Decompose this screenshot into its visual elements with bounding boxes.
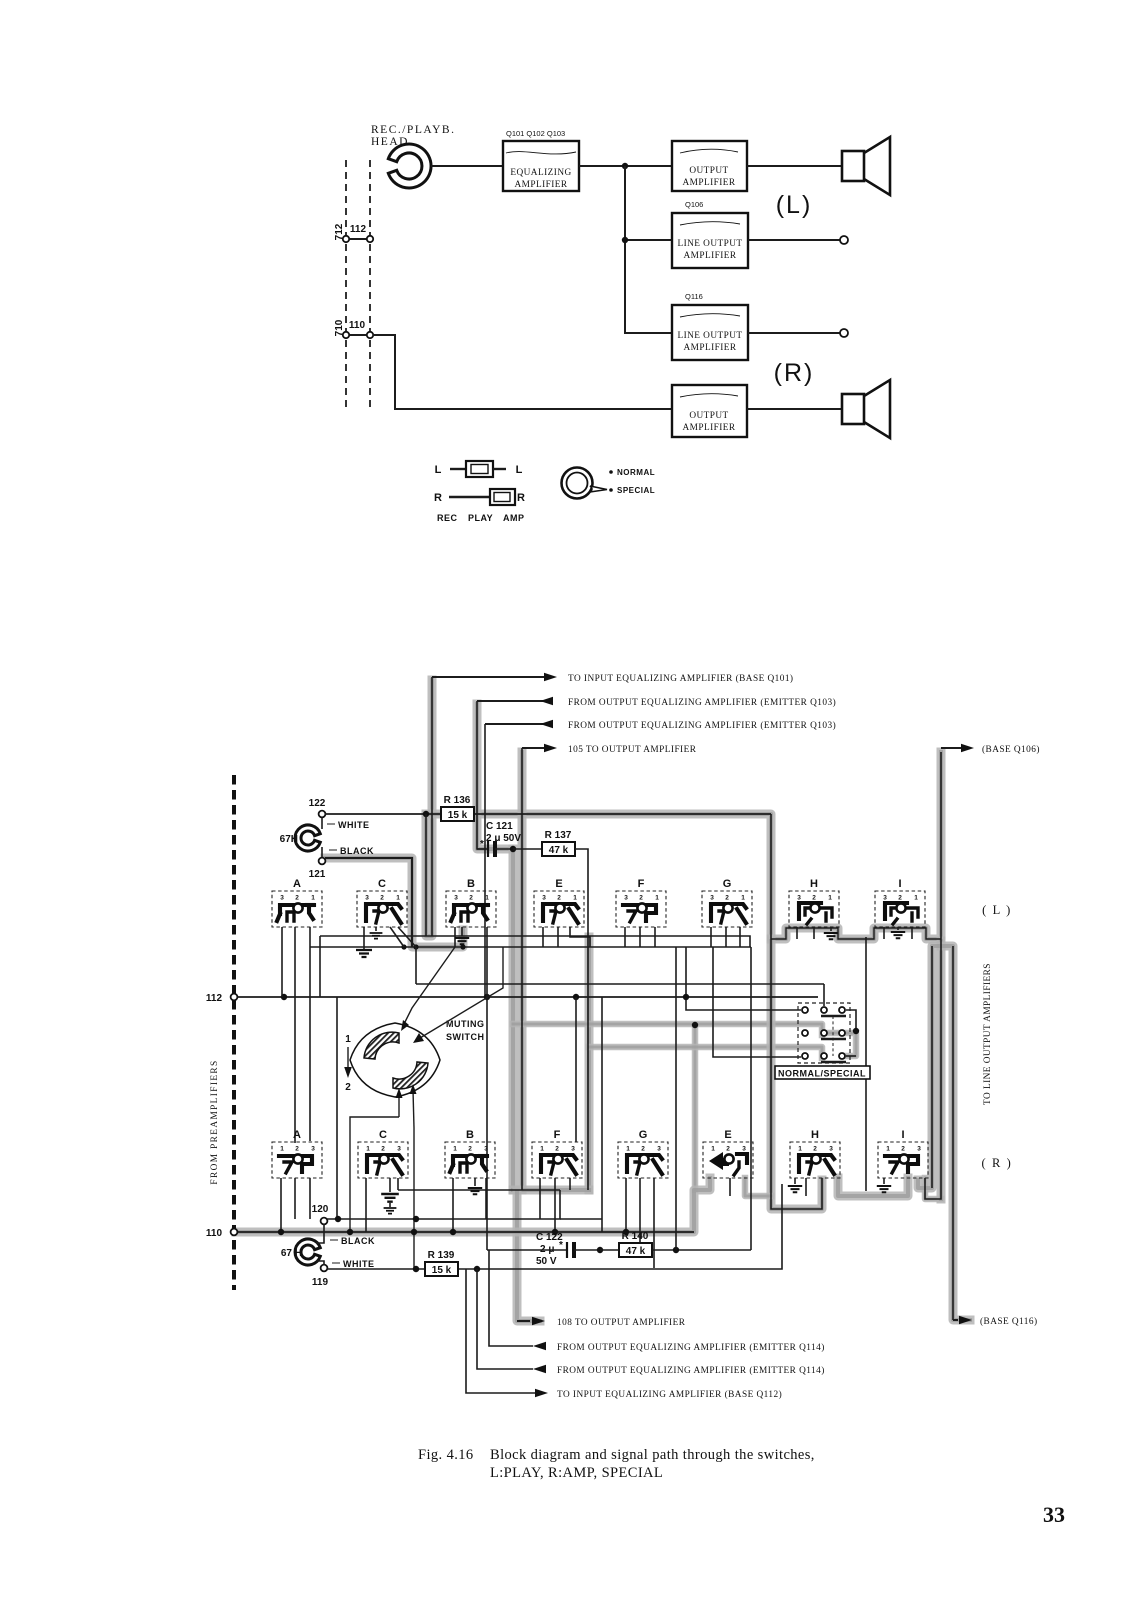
wire head lower white lead (316, 1261, 324, 1265)
node dots R139 line (413, 1266, 480, 1272)
svg-text:47 k: 47 k (626, 1246, 646, 1257)
switch E upper (534, 878, 584, 927)
node C121/R137 junction (510, 846, 516, 852)
node dots 120 bus (335, 1216, 419, 1222)
svg-text:2: 2 (639, 895, 643, 902)
svg-text:AMPLIFIER: AMPLIFIER (682, 178, 735, 188)
switch G upper (702, 878, 752, 927)
label WHITE lower (332, 1259, 375, 1269)
svg-text:2: 2 (295, 1146, 299, 1153)
capacitor C122 (487, 1240, 600, 1258)
legend labels REC PLAY AMP (437, 513, 525, 523)
signal path grey I exit up (925, 1178, 941, 1199)
wire equalizing amp to output amp (579, 165, 672, 167)
wire R136 line (325, 813, 771, 815)
svg-text:L: L (435, 464, 442, 476)
switch I upper (875, 878, 925, 927)
wire switch H lower legs (805, 1178, 807, 1196)
wire switch B upper legs (455, 927, 487, 1250)
terminal 121 (309, 858, 326, 880)
svg-text:WHITE: WHITE (338, 820, 370, 830)
arrow from output equalizing amplifier R 2 (477, 1269, 825, 1376)
svg-text:F: F (638, 878, 645, 890)
svg-text:1: 1 (540, 1146, 544, 1153)
wire switch C lower legs (366, 1178, 398, 1232)
svg-text:108 TO OUTPUT AMPLIFIER: 108 TO OUTPUT AMPLIFIER (557, 1318, 686, 1328)
svg-text:3: 3 (311, 1146, 315, 1153)
svg-text:B: B (467, 878, 475, 890)
equalizing amplifier block (503, 141, 579, 191)
svg-text:A: A (293, 1129, 301, 1141)
node junction line out L (622, 237, 628, 243)
switch G lower (618, 1129, 668, 1178)
svg-text:3: 3 (797, 895, 801, 902)
svg-text:MUTING: MUTING (446, 1019, 485, 1029)
dashed border from preamplifiers (232, 775, 236, 1290)
svg-text:3: 3 (883, 895, 887, 902)
signal path grey to R136 and top bus (426, 680, 432, 936)
output amplifier block R (672, 385, 747, 437)
wire R139 line (327, 1184, 782, 1269)
wire long column x602 (601, 997, 603, 1232)
wire muting feed 2 (413, 947, 503, 1043)
svg-text:3: 3 (280, 895, 284, 902)
svg-text:15 k: 15 k (432, 1265, 452, 1276)
label ( L ) (982, 903, 1012, 917)
ground switch B lower (468, 1178, 482, 1194)
speaker R (842, 380, 890, 438)
svg-text:1: 1 (366, 1146, 370, 1153)
svg-text:TO LINE OUTPUT AMPLIFIERS: TO LINE OUTPUT AMPLIFIERS (983, 963, 993, 1105)
node bus dots y947 (401, 944, 465, 949)
signal path grey R137 branch down (509, 849, 518, 1190)
svg-text:1: 1 (280, 1146, 284, 1153)
svg-text:1: 1 (626, 1146, 630, 1153)
wire column x576 (575, 997, 577, 1142)
svg-text:NORMAL/SPECIAL: NORMAL/SPECIAL (778, 1069, 866, 1079)
label Q116 (685, 292, 703, 301)
wire switch C upper legs (364, 927, 416, 947)
svg-text:G: G (639, 1129, 648, 1141)
svg-text:( L ): ( L ) (982, 903, 1012, 917)
arrow to input equalizing amplifier L (432, 673, 793, 684)
ground switch C lower (381, 1178, 399, 1214)
terminal line out R (840, 329, 848, 337)
ground switch B upper (455, 927, 469, 944)
wire bus y984 (416, 947, 824, 984)
svg-text:2: 2 (469, 895, 473, 902)
svg-text:3: 3 (571, 1146, 575, 1153)
legend slider L (435, 461, 523, 477)
svg-text:WHITE: WHITE (343, 1259, 375, 1269)
legend NORMAL position (609, 468, 655, 477)
svg-text:REC: REC (437, 513, 458, 523)
svg-text:BLACK: BLACK (340, 846, 374, 856)
svg-text:R 136: R 136 (444, 795, 471, 806)
wire switch F upper legs (625, 927, 655, 947)
normal/special row 1 (802, 1007, 856, 1031)
svg-text:BLACK: BLACK (341, 1236, 375, 1246)
wire head to equalizing amplifier (431, 165, 503, 167)
capacitor C121 labels (486, 821, 521, 844)
svg-text:1: 1 (485, 895, 489, 902)
legend rotary switch NORMAL/SPECIAL (562, 468, 608, 499)
wire y937 weave black (771, 928, 941, 939)
arrow from output equalizing amplifier L 1 (477, 697, 836, 708)
wire switch A upper legs (282, 927, 310, 1143)
svg-text:1: 1 (798, 1146, 802, 1153)
signal path grey normal/special internal (824, 1033, 856, 1056)
label BLACK upper (329, 846, 374, 856)
svg-text:FROM OUTPUT EQUALIZING AMPLIFI: FROM OUTPUT EQUALIZING AMPLIFIER (EMITTE… (568, 720, 836, 731)
resistor R137 (542, 830, 575, 856)
wire arrow1 column (431, 677, 433, 936)
svg-text:L: L (516, 464, 523, 476)
wire arrow2 column to C121 (477, 701, 486, 849)
svg-text:Q116: Q116 (685, 292, 703, 301)
muting positions 1 2 (344, 1034, 352, 1093)
svg-text:2: 2 (898, 895, 902, 902)
svg-text:2: 2 (380, 895, 384, 902)
signal path grey normal/special row2 (513, 1024, 822, 1035)
label BLACK lower (330, 1236, 375, 1246)
svg-text:2: 2 (345, 1082, 351, 1093)
switch A upper (272, 878, 322, 927)
svg-text:3: 3 (365, 895, 369, 902)
wire switch I lower legs (884, 1178, 895, 1196)
svg-text:AMPLIFIER: AMPLIFIER (514, 180, 567, 190)
svg-text:I: I (898, 878, 901, 890)
svg-text:G: G (723, 878, 732, 890)
svg-text:R 137: R 137 (545, 830, 572, 841)
svg-text:B: B (466, 1129, 474, 1141)
svg-text:LINE OUTPUT: LINE OUTPUT (677, 331, 742, 341)
wire switch I upper legs (884, 927, 912, 939)
svg-text:3: 3 (917, 1146, 921, 1153)
arrow base Q106 (941, 744, 1040, 755)
svg-text:EQUALIZING: EQUALIZING (510, 168, 571, 178)
svg-text:2: 2 (557, 895, 561, 902)
svg-text:( R ): ( R ) (982, 1156, 1013, 1170)
terminal line out L (840, 236, 848, 244)
switch C upper (357, 878, 407, 927)
svg-text:R 139: R 139 (428, 1250, 455, 1261)
switch B lower (445, 1129, 495, 1178)
wire R140 line (597, 947, 751, 1253)
dashed cable line right (369, 160, 371, 412)
svg-text:2: 2 (381, 1146, 385, 1153)
ground switch H lower (788, 1178, 802, 1192)
svg-text:15 k: 15 k (448, 810, 468, 821)
line output amplifier block Q116 (672, 305, 748, 360)
normal/special row 2 (802, 1030, 846, 1039)
speaker L (842, 137, 890, 195)
svg-text:H: H (811, 1129, 819, 1141)
terminal 122 (309, 798, 326, 829)
svg-text:1: 1 (573, 895, 577, 902)
svg-text:E: E (555, 878, 562, 890)
switch F lower (532, 1129, 582, 1178)
svg-text:Fig. 4.16: Fig. 4.16 (418, 1447, 474, 1463)
svg-text:2: 2 (812, 895, 816, 902)
svg-text:Q106: Q106 (685, 200, 703, 209)
svg-text:FROM OUTPUT EQUALIZING AMPLIFI: FROM OUTPUT EQUALIZING AMPLIFIER (EMITTE… (557, 1342, 825, 1353)
node grey junction E column (692, 1022, 698, 1028)
signal path grey bottom junction to 108 arrow (513, 1190, 589, 1321)
svg-text:67 H: 67 H (281, 1248, 302, 1259)
svg-text:OUTPUT: OUTPUT (689, 166, 728, 176)
svg-text:R: R (517, 492, 525, 504)
svg-text:*: * (559, 1240, 563, 1251)
svg-text:R: R (434, 492, 442, 504)
signal path grey C121 feed (477, 704, 510, 849)
svg-text:AMPLIFIER: AMPLIFIER (683, 343, 736, 353)
label WHITE upper (327, 820, 370, 830)
switch B upper (446, 878, 496, 927)
svg-text:3: 3 (542, 895, 546, 902)
svg-text:1: 1 (345, 1034, 351, 1045)
label ( R ) (982, 1156, 1013, 1170)
resistor R139 (425, 1250, 458, 1276)
ground switch H upper (824, 927, 838, 939)
svg-text:3: 3 (657, 1146, 661, 1153)
wire arrow3 column (484, 724, 486, 997)
legend slider R (434, 489, 525, 505)
svg-text:OUTPUT: OUTPUT (689, 411, 728, 421)
svg-text:(L): (L) (776, 191, 813, 219)
svg-text:1: 1 (886, 1146, 890, 1153)
wire x824 up (823, 984, 825, 1006)
signal path grey R137 output column (585, 937, 594, 1190)
ground switch I upper (891, 927, 905, 938)
svg-text:1: 1 (711, 1146, 715, 1153)
switch H upper (789, 878, 839, 927)
head 67H lower (281, 1239, 320, 1265)
svg-text:3: 3 (397, 1146, 401, 1153)
signal path grey R136 line to H column (426, 814, 771, 937)
wire muting exit 1 (350, 1088, 403, 1232)
svg-text:105 TO OUTPUT AMPLIFIER: 105 TO OUTPUT AMPLIFIER (568, 745, 697, 755)
rec/playback head symbol (388, 144, 431, 188)
svg-text:Q101 Q102 Q103: Q101 Q102 Q103 (506, 129, 565, 138)
svg-text:2: 2 (295, 895, 299, 902)
svg-text:2: 2 (555, 1146, 559, 1153)
wire line output L to terminal (748, 239, 840, 241)
switch I lower (878, 1129, 928, 1178)
arrow 105 to output amplifier (522, 744, 697, 755)
svg-text:SWITCH: SWITCH (446, 1032, 485, 1042)
wire N/S row1 feed column (683, 947, 801, 1010)
wire line output R to terminal (748, 332, 840, 334)
svg-text:1: 1 (741, 895, 745, 902)
wire switch A lower legs (281, 1178, 310, 1232)
arrow to input equalizing amplifier R (466, 1269, 782, 1400)
svg-text:110: 110 (206, 1228, 223, 1239)
arrow base Q116 (953, 1316, 1038, 1327)
svg-text:2: 2 (726, 1146, 730, 1153)
muting switch contact upper (364, 1032, 399, 1059)
label FROM PREAMPLIFIERS (210, 1059, 220, 1184)
svg-text:AMPLIFIER: AMPLIFIER (683, 251, 736, 261)
svg-text:1: 1 (914, 895, 918, 902)
wire switch F lower legs (540, 1178, 570, 1232)
wire black lead L (325, 858, 412, 947)
wire output amp L to speaker (747, 165, 842, 167)
svg-text:REC./PLAYB.: REC./PLAYB. (371, 124, 455, 136)
svg-text:I: I (901, 1129, 904, 1141)
node junction L (622, 163, 628, 169)
svg-text:1: 1 (655, 895, 659, 902)
wire switch H upper legs (797, 927, 814, 939)
svg-text:50 V: 50 V (536, 1256, 557, 1267)
wire 120 bus (324, 1190, 602, 1240)
label (L) (776, 191, 813, 219)
svg-text:AMPLIFIER: AMPLIFIER (682, 423, 735, 433)
wire 110 to output amplifier R (373, 335, 672, 409)
svg-text:119: 119 (312, 1277, 329, 1288)
svg-text:2: 2 (641, 1146, 645, 1153)
svg-text:TO INPUT EQUALIZING AMPLIFIER: TO INPUT EQUALIZING AMPLIFIER (BASE Q101… (568, 673, 793, 684)
terminal 120 (312, 1204, 329, 1224)
svg-text:3: 3 (829, 1146, 833, 1153)
svg-text:110: 110 (349, 320, 366, 331)
svg-text:121: 121 (309, 869, 326, 880)
signal path grey normal/special row3 (589, 1047, 822, 1058)
wire bus y947 (310, 947, 751, 1250)
output amplifier block L (672, 141, 747, 191)
signal path grey H to I weave (838, 1178, 908, 1196)
signal path grey weave to base Q106 (771, 752, 941, 939)
svg-text:LINE OUTPUT: LINE OUTPUT (677, 239, 742, 249)
wire R136 junction down (425, 814, 427, 936)
capacitor C122 labels (536, 1232, 563, 1267)
switch F upper (616, 878, 666, 927)
svg-text:122: 122 (309, 798, 326, 809)
label NORMAL/SPECIAL (775, 1066, 870, 1079)
svg-text:PLAY: PLAY (468, 513, 493, 523)
label (R) (774, 359, 815, 387)
svg-text:FROM PREAMPLIFIERS: FROM PREAMPLIFIERS (210, 1059, 220, 1184)
svg-text:2: 2 (813, 1146, 817, 1153)
svg-text:(BASE Q106): (BASE Q106) (982, 744, 1040, 755)
ground switch C upper (356, 947, 372, 957)
svg-text:2 μ 50V: 2 μ 50V (486, 833, 521, 844)
wire switch E upper legs (543, 927, 590, 947)
wire bus y1190 (398, 1189, 560, 1191)
resistor R140 (619, 1231, 652, 1257)
svg-text:112: 112 (350, 224, 367, 235)
wire R137 output down (575, 849, 588, 1190)
wire right columns black (925, 752, 953, 1320)
svg-text:2: 2 (901, 1146, 905, 1153)
signal path grey column base Q106 lower (937, 941, 946, 1199)
svg-text:AMP: AMP (503, 513, 525, 523)
wire switch E lower legs (729, 1178, 731, 1196)
wire output amp R to speaker (747, 408, 842, 410)
svg-text:3: 3 (624, 895, 628, 902)
svg-text:C: C (379, 1129, 387, 1141)
svg-text:C: C (378, 878, 386, 890)
svg-text:Block diagram and signal path: Block diagram and signal path through th… (490, 1447, 815, 1463)
wire long column x337 (336, 997, 338, 1219)
arrow 108 to output amplifier (517, 1317, 686, 1328)
signal path grey E exit (745, 1178, 771, 1196)
svg-text:(R): (R) (774, 359, 815, 387)
svg-text:*: * (480, 839, 484, 850)
svg-text:1: 1 (396, 895, 400, 902)
svg-text:E: E (724, 1129, 731, 1141)
muting switch body (350, 1023, 440, 1097)
label Q101 Q102 Q103 (506, 129, 565, 138)
switch C lower (358, 1129, 408, 1178)
svg-text:1: 1 (453, 1146, 457, 1153)
wire arrow4 column (521, 748, 523, 1190)
connector pin 712/112 (334, 223, 373, 242)
switch E lower (703, 1129, 753, 1178)
wire x771 column (771, 814, 822, 1209)
wire C121 junction to R137 (513, 848, 542, 850)
wire switch G lower legs (626, 1178, 654, 1268)
connector pin 710/110 (334, 319, 373, 338)
signal path grey 105 output column (518, 752, 527, 1190)
page number 33 (1043, 1502, 1065, 1527)
svg-text:R 140: R 140 (622, 1231, 649, 1242)
normal/special switch box (798, 1003, 850, 1063)
svg-text:FROM OUTPUT EQUALIZING AMPLIFI: FROM OUTPUT EQUALIZING AMPLIFIER (EMITTE… (557, 1365, 825, 1376)
svg-text:(BASE Q116): (BASE Q116) (980, 1316, 1038, 1327)
muting switch contact lower (393, 1062, 428, 1089)
wire bus y936 (320, 936, 750, 997)
ground switch I lower (877, 1178, 891, 1192)
label MUTING SWITCH (446, 1019, 485, 1042)
node dots 110 line (278, 1229, 629, 1235)
terminal 110 lower (206, 1228, 237, 1239)
label TO LINE OUTPUT AMPLIFIERS (983, 963, 993, 1105)
label Q106 (685, 200, 703, 209)
switch A lower (272, 1129, 322, 1178)
svg-text:3: 3 (484, 1146, 488, 1153)
svg-text:3: 3 (454, 895, 458, 902)
svg-text:1: 1 (311, 895, 315, 902)
signal path grey H column down to E H blocks (771, 941, 822, 1209)
wire normal/special right column (856, 937, 866, 1191)
svg-text:112: 112 (206, 993, 223, 1004)
wire N/S row3 feed column (713, 947, 801, 1057)
svg-text:H: H (810, 878, 818, 890)
label REC./PLAYB. HEAD (371, 124, 455, 148)
switch H lower (790, 1129, 840, 1178)
node R136 junction (423, 811, 429, 817)
terminal 119 (312, 1265, 329, 1288)
signal path grey 110 bus R (236, 1178, 710, 1232)
svg-text:F: F (554, 1129, 561, 1141)
node row2 junction (853, 1028, 859, 1034)
svg-text:1: 1 (828, 895, 832, 902)
signal path grey head black L (325, 858, 463, 947)
svg-text:33: 33 (1043, 1502, 1065, 1527)
wire muting feed 1 (401, 947, 455, 1031)
svg-text:SPECIAL: SPECIAL (617, 486, 655, 495)
wire switch G upper legs (711, 927, 740, 947)
line output amplifier block Q106 (672, 213, 748, 268)
wire muting exit 2 (410, 1084, 417, 1269)
node dots 112 line (281, 994, 579, 1000)
svg-text:L:PLAY, R:AMP, SPECIAL: L:PLAY, R:AMP, SPECIAL (490, 1465, 663, 1481)
svg-text:TO INPUT EQUALIZING AMPLIFIER: TO INPUT EQUALIZING AMPLIFIER (BASE Q112… (557, 1389, 782, 1400)
wire switch B lower legs (453, 1178, 486, 1232)
arrow from output equalizing amplifier R 1 (489, 1250, 825, 1353)
resistor R136 (441, 795, 474, 821)
